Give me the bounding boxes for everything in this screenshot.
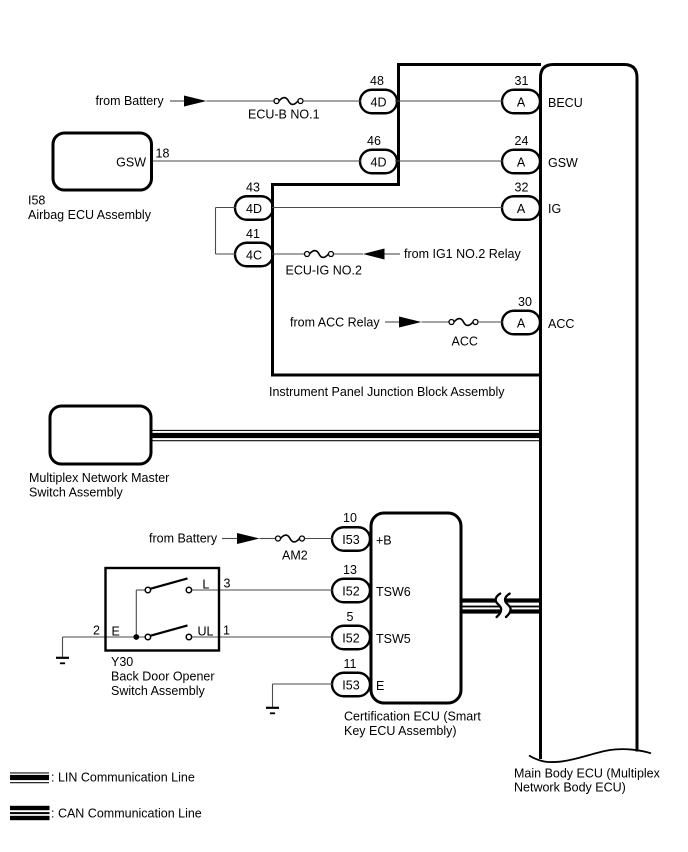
svg-text:41: 41	[246, 227, 260, 241]
svg-text:TSW6: TSW6	[376, 585, 411, 599]
svg-text:3: 3	[224, 577, 231, 591]
svg-text:Network Body ECU): Network Body ECU)	[514, 781, 626, 795]
svg-text:Instrument Panel Junction Bloc: Instrument Panel Junction Block Assembly	[269, 385, 505, 399]
svg-text:TSW5: TSW5	[376, 632, 411, 646]
svg-text:18: 18	[156, 147, 170, 161]
svg-text:I58: I58	[28, 194, 45, 208]
svg-text:from Battery: from Battery	[96, 94, 165, 108]
svg-text:ECU-B NO.1: ECU-B NO.1	[248, 108, 320, 122]
svg-text:L: L	[202, 578, 209, 592]
svg-text:+B: +B	[376, 534, 392, 548]
svg-text:: LIN Communication Line: : LIN Communication Line	[51, 771, 195, 785]
svg-text:I52: I52	[342, 632, 359, 646]
svg-text:from IG1 NO.2 Relay: from IG1 NO.2 Relay	[404, 247, 521, 261]
svg-text:ECU-IG NO.2: ECU-IG NO.2	[286, 264, 362, 278]
svg-text:A: A	[517, 317, 526, 331]
svg-text:Main Body ECU (Multiplex: Main Body ECU (Multiplex	[514, 766, 661, 780]
svg-text:AM2: AM2	[282, 549, 308, 563]
svg-text:11: 11	[344, 657, 357, 671]
svg-text:GSW: GSW	[116, 156, 146, 170]
svg-text:4C: 4C	[246, 249, 262, 263]
svg-text:1: 1	[223, 624, 230, 638]
svg-text:IG: IG	[548, 202, 561, 216]
svg-text:4D: 4D	[371, 156, 387, 170]
svg-text:Key ECU Assembly): Key ECU Assembly)	[344, 724, 457, 738]
svg-text:43: 43	[246, 181, 260, 195]
svg-text:E: E	[112, 625, 120, 639]
svg-text:32: 32	[515, 181, 529, 195]
svg-text:5: 5	[347, 610, 354, 624]
svg-text:from Battery: from Battery	[149, 532, 218, 546]
svg-text:: CAN Communication Line: : CAN Communication Line	[51, 807, 202, 821]
svg-text:48: 48	[370, 74, 384, 88]
svg-text:Certification ECU (Smart: Certification ECU (Smart	[344, 710, 481, 724]
svg-text:Back Door Opener: Back Door Opener	[111, 670, 215, 684]
svg-text:30: 30	[518, 295, 532, 309]
svg-text:from ACC Relay: from ACC Relay	[290, 316, 380, 330]
svg-text:I53: I53	[342, 533, 359, 547]
svg-text:A: A	[517, 202, 526, 216]
svg-text:ACC: ACC	[452, 335, 478, 349]
svg-text:Multiplex Network Master: Multiplex Network Master	[29, 471, 169, 485]
svg-text:24: 24	[515, 134, 529, 148]
svg-text:13: 13	[343, 563, 357, 577]
svg-text:4D: 4D	[246, 202, 262, 216]
svg-text:Switch Assembly: Switch Assembly	[111, 684, 206, 698]
svg-text:I53: I53	[342, 679, 359, 693]
svg-text:A: A	[517, 156, 526, 170]
svg-text:4D: 4D	[371, 96, 387, 110]
svg-text:BECU: BECU	[548, 96, 583, 110]
svg-text:31: 31	[515, 74, 529, 88]
svg-text:46: 46	[367, 134, 381, 148]
svg-text:2: 2	[93, 624, 100, 638]
svg-text:A: A	[517, 96, 526, 110]
svg-text:E: E	[376, 679, 384, 693]
svg-text:UL: UL	[198, 625, 214, 639]
svg-text:I52: I52	[342, 585, 359, 599]
svg-text:ACC: ACC	[548, 317, 574, 331]
svg-text:Airbag ECU Assembly: Airbag ECU Assembly	[28, 208, 152, 222]
svg-text:Switch Assembly: Switch Assembly	[29, 486, 124, 500]
svg-text:GSW: GSW	[548, 156, 578, 170]
svg-text:10: 10	[343, 511, 357, 525]
svg-text:Y30: Y30	[111, 655, 133, 669]
